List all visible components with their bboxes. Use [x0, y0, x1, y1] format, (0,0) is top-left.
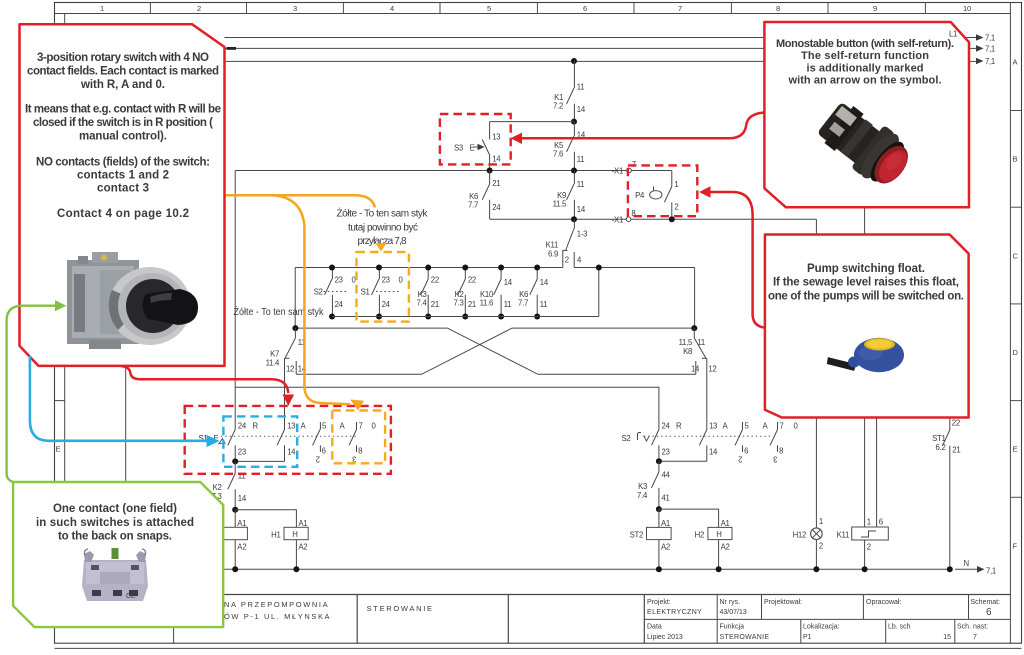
svg-text:1: 1 [674, 180, 678, 189]
junction P4/rail2 [669, 216, 675, 222]
svg-text:in such switches is attached: in such switches is attached [36, 517, 194, 529]
svg-text:14: 14 [238, 494, 247, 503]
svg-text:B: B [1013, 155, 1018, 164]
wire H12 feed from float area [815, 416, 817, 528]
wire bus L3 (y=61) with right arrow 7,1 [225, 57, 995, 66]
svg-text:14: 14 [540, 278, 549, 287]
svg-text:24: 24 [492, 203, 501, 212]
junction H12/rail [813, 566, 819, 572]
svg-text:Nr rys.: Nr rys. [720, 599, 741, 606]
svg-text:Lipiec 2013: Lipiec 2013 [647, 634, 683, 641]
annotation red leader from callout2 to S3 box [521, 113, 765, 139]
junction K10 bottom [498, 314, 504, 320]
svg-text:24: 24 [335, 300, 344, 309]
annotation red arrowhead at S3 box [511, 133, 523, 144]
svg-text:S2: S2 [622, 434, 631, 443]
svg-text:7.2: 7.2 [553, 102, 563, 111]
svg-text:2: 2 [674, 203, 678, 212]
switch S2 coupling dotted line [644, 435, 773, 437]
svg-text:A2: A2 [298, 543, 307, 552]
photo: contact block [82, 548, 148, 601]
svg-text:R: R [253, 421, 259, 430]
svg-text:contacts 1 and 2: contacts 1 and 2 [77, 170, 169, 182]
svg-text:One contact (one field): One contact (one field) [53, 503, 177, 515]
svg-text:6: 6 [322, 447, 326, 456]
svg-text:22: 22 [468, 276, 476, 285]
svg-text:S2: S2 [314, 288, 323, 297]
svg-text:K3: K3 [638, 482, 647, 491]
frame: left row tick and letter E [55, 400, 65, 402]
svg-text:2: 2 [867, 543, 871, 552]
svg-text:8: 8 [779, 447, 783, 456]
junction K9/rail2 [571, 216, 577, 222]
svg-text:E: E [1013, 445, 1018, 454]
svg-text:22: 22 [952, 419, 960, 428]
svg-text:ELEKTRYCZNY: ELEKTRYCZNY [647, 609, 702, 616]
svg-text:Pump switching float.: Pump switching float. [807, 263, 925, 275]
svg-text:one of the pumps will be switc: one of the pumps will be switched on. [768, 291, 964, 303]
svg-text:D: D [1013, 348, 1019, 357]
svg-text:3: 3 [293, 4, 297, 13]
switch S1 coupling dotted line [221, 435, 358, 437]
annotation yellow arrow into block box [375, 243, 386, 252]
wire long vertical x=235.2 down to S1 [234, 171, 236, 430]
svg-text:11.5: 11.5 [553, 200, 567, 209]
svg-text:6.2: 6.2 [936, 443, 946, 452]
contact S2 (block, pins 23/24, position 0) [314, 268, 357, 317]
annotation blue dashed box around S1 fields 1-2 [223, 416, 297, 466]
annotation yellow dashed box around S1 block contact [357, 252, 409, 322]
svg-text:24: 24 [662, 421, 671, 430]
svg-text:14: 14 [287, 448, 296, 457]
svg-text:S1: S1 [361, 288, 370, 297]
annotation yellow arrowhead at S1 field 4 [350, 400, 364, 411]
svg-text:R: R [676, 421, 682, 430]
svg-text:23: 23 [335, 276, 343, 285]
svg-text:23: 23 [238, 448, 246, 457]
svg-text:NA PRZEPOMPOWNIA: NA PRZEPOMPOWNIA [224, 600, 329, 609]
annotation red dashed box around S3 [440, 114, 511, 164]
junction K3 / H2 branch [656, 506, 662, 512]
svg-text:A: A [1013, 58, 1018, 67]
svg-text:Żółte - To ten sam styk: Żółte - To ten sam styk [337, 207, 429, 220]
contact K8 11.5 (changeover, pins 11/14,12) [679, 328, 717, 429]
annotation yellow leader to S1 field 4 box [273, 195, 350, 404]
switch S2 row label with spring-return symbol [622, 433, 650, 444]
junction K2 bottom [462, 314, 468, 320]
title block [211, 595, 1010, 644]
svg-text:ST2: ST2 [630, 531, 643, 540]
svg-text:A: A [301, 421, 307, 430]
svg-text:1: 1 [100, 4, 104, 13]
annotation red dashed box around P4 [628, 165, 697, 216]
junction S1 top [376, 265, 382, 271]
svg-text:41: 41 [662, 494, 670, 503]
wire bus L1 (y=37.5) with right arrow 7,1 [225, 34, 995, 43]
junction K6 bottom [534, 314, 540, 320]
terminal -X1:8 on rail2 [612, 209, 636, 224]
svg-text:1: 1 [867, 518, 871, 527]
junction H2/rail [716, 566, 722, 572]
svg-text:-X1: -X1 [612, 215, 623, 224]
svg-text:7.6: 7.6 [553, 150, 563, 159]
contact S2 field 4 (pins 7/8, A 0) [763, 421, 799, 463]
svg-text:Opracował:: Opracował: [866, 599, 901, 606]
callout 4: contact block note (green) [13, 482, 223, 627]
svg-text:7: 7 [359, 421, 363, 430]
junction K3 bottom [425, 314, 431, 320]
junction K2 / H1 branch [232, 507, 238, 513]
svg-text:L1: L1 [949, 30, 957, 39]
svg-text:43/07/13: 43/07/13 [720, 609, 747, 616]
svg-text:14: 14 [577, 105, 586, 114]
svg-text:A2: A2 [721, 542, 730, 551]
svg-text:11: 11 [697, 338, 705, 347]
svg-text:4: 4 [390, 4, 394, 13]
svg-text:14: 14 [492, 155, 501, 164]
svg-text:11: 11 [540, 300, 548, 309]
callout 3: float note (red) [765, 235, 969, 418]
junction long rail right [691, 325, 697, 331]
annotation red dashed box around S1 row [185, 406, 391, 474]
svg-text:The self-return function: The self-return function [801, 50, 929, 62]
svg-text:11,5: 11,5 [679, 338, 693, 347]
wire top rail of contact block y=267.5 (right segment) [574, 267, 694, 269]
frame: top column ruler ticks [150, 3, 925, 14]
svg-text:14: 14 [691, 365, 700, 374]
junction K11/rail [862, 566, 868, 572]
svg-text:0: 0 [372, 421, 377, 430]
svg-text:2: 2 [565, 256, 569, 265]
lamp H12 (pins 1/2) [793, 517, 823, 569]
svg-text:6: 6 [986, 607, 992, 618]
junction S2 bottom [656, 458, 662, 464]
wire S1 fields 1-2 bottom link [235, 460, 284, 462]
svg-text:contact fields. Each contact i: contact fields. Each contact is marked [27, 66, 219, 78]
annotation red leader from callout3 to P4 box [710, 192, 765, 328]
svg-text:7: 7 [678, 4, 682, 13]
junction ST1/rail [947, 566, 953, 572]
svg-text:Monostable button (with self-r: Monostable button (with self-return). [776, 38, 954, 50]
svg-text:21: 21 [468, 300, 476, 309]
svg-text:14: 14 [504, 278, 513, 287]
svg-text:13: 13 [287, 421, 295, 430]
svg-text:10: 10 [963, 4, 971, 13]
label N with arrow 7,1 [955, 559, 996, 575]
svg-text:1: 1 [819, 517, 823, 526]
svg-text:2: 2 [738, 455, 742, 464]
junction S3/rail [487, 168, 493, 174]
svg-text:E: E [470, 144, 475, 153]
contact K2 7.3 (block, pins 22/21) [454, 268, 476, 317]
svg-text:Projekt:: Projekt: [647, 599, 671, 606]
svg-text:K7: K7 [270, 350, 279, 359]
svg-text:A2: A2 [661, 542, 670, 551]
junction K2 top [462, 265, 468, 271]
wire crossover path A (left top to K8 pin14) [295, 328, 695, 374]
svg-text:15: 15 [943, 634, 951, 641]
junction K1/K5/S3 branch [571, 119, 577, 125]
annotation yellow note text (3 lines) [337, 207, 429, 248]
svg-text:It means that e.g. contact wit: It means that e.g. contact with R will b… [25, 104, 221, 116]
svg-text:24: 24 [238, 421, 247, 430]
svg-text:S3: S3 [454, 144, 463, 153]
relay K11 (timer coil, pins 1,6/2) [837, 518, 889, 570]
junction riser/top rail [596, 265, 602, 271]
wire left vertical to long rail [294, 268, 296, 329]
svg-text:Lokalizacja:: Lokalizacja: [803, 624, 840, 631]
contact S2 field 2 (pins 13/14, A) [699, 421, 728, 461]
svg-text:H: H [716, 530, 721, 539]
svg-text:Contact 4 on page 10.2: Contact 4 on page 10.2 [57, 208, 189, 220]
callout 1: rotary switch note (red) [20, 24, 225, 366]
annotation green leader to rotary switch photo [7, 300, 67, 482]
wire rail y=170.5 from x=235 to P4 [235, 170, 672, 172]
svg-text:6: 6 [879, 518, 883, 527]
svg-text:6.9: 6.9 [548, 250, 558, 259]
svg-text:6: 6 [583, 4, 587, 13]
svg-text:manual control).: manual control). [79, 131, 167, 143]
contact K3 7.4 (lower, pins 44/41) [637, 461, 670, 509]
svg-text:ÓW P-1 UL. MŁYNSKA: ÓW P-1 UL. MŁYNSKA [224, 612, 331, 621]
svg-text:K8: K8 [683, 347, 692, 356]
wire bus L2 (y=48.4) with thick tap dash and right arrow 7,1 [225, 44, 995, 53]
wire S2 fields 1-2 bottom link [659, 460, 707, 462]
svg-text:1-3: 1-3 [577, 230, 587, 239]
svg-text:21: 21 [492, 179, 500, 188]
junction ST2/rail [656, 566, 662, 572]
svg-text:5: 5 [745, 421, 750, 430]
svg-text:7: 7 [780, 421, 784, 430]
svg-text:A2: A2 [237, 543, 246, 552]
svg-text:23: 23 [382, 276, 390, 285]
svg-text:E: E [56, 445, 61, 454]
contact S1 field 1 (pins 24/23, R) [228, 421, 259, 461]
svg-text:Data: Data [647, 624, 662, 631]
svg-text:21: 21 [431, 300, 439, 309]
junction S1 bottom [376, 314, 382, 320]
svg-text:with an arrow on the symbol.: with an arrow on the symbol. [788, 75, 942, 87]
junction coil A1/rail [232, 566, 238, 572]
wire K11 coil pin6 feed [876, 416, 878, 527]
svg-text:12: 12 [286, 365, 294, 374]
wire branch to H2 [659, 509, 719, 527]
annotation yellow leader to note [225, 195, 375, 207]
wire top rail of contact block y=267.5 (left segment) [295, 267, 563, 269]
svg-text:8: 8 [776, 4, 780, 13]
svg-text:STEROWANIE: STEROWANIE [367, 604, 434, 613]
svg-text:24: 24 [382, 300, 391, 309]
svg-text:4: 4 [577, 256, 582, 265]
svg-text:STEROWANIE: STEROWANIE [720, 634, 770, 641]
junction K6 top [534, 265, 540, 271]
svg-text:11.4: 11.4 [266, 359, 280, 368]
svg-text:K2: K2 [213, 483, 222, 492]
contact K11 6.9 (changeover, pins 1-3 / 2,4) [546, 219, 588, 267]
svg-text:14: 14 [577, 205, 586, 214]
svg-text:11: 11 [577, 83, 585, 92]
svg-text:H: H [292, 530, 297, 539]
svg-text:H1: H1 [271, 531, 280, 540]
svg-text:CE: CE [126, 593, 136, 600]
wire right vertical to long rail [694, 268, 696, 329]
svg-text:2: 2 [197, 4, 201, 13]
svg-text:23: 23 [662, 448, 670, 457]
svg-text:7.7: 7.7 [468, 201, 478, 210]
photo: red pushbutton [813, 95, 918, 194]
contact S1 field 3 (pins 5/6) [313, 421, 327, 463]
wire K11 coil pin1 feed [864, 207, 866, 234]
svg-text:6: 6 [744, 447, 748, 456]
svg-text:11: 11 [504, 300, 512, 309]
svg-text:A: A [340, 421, 346, 430]
title block texts [224, 599, 1000, 641]
junction S2 bottom [329, 314, 335, 320]
contact K3 7.4 (block, pins 22/21) [417, 268, 439, 317]
svg-text:ST1: ST1 [932, 434, 945, 443]
wire branch to H1 [235, 510, 296, 528]
svg-text:7.4: 7.4 [637, 491, 648, 500]
wire S1-S2 link rail y=387.3 [235, 387, 659, 429]
frame: right row-letter ticks [1010, 111, 1022, 498]
photo: float switch [826, 338, 904, 372]
wire mid rail y=316.5 and riser to top rail [332, 268, 599, 317]
wire bottom rail N y=569.3 [211, 568, 950, 570]
wire rail y=219.2 K6 to x=816 corner [490, 219, 817, 236]
svg-text:Schemat:: Schemat: [971, 599, 1001, 606]
svg-text:14: 14 [709, 448, 718, 457]
contact P4 float switch (pins 1/2) [635, 171, 678, 220]
photo: rotary switch [67, 252, 198, 349]
junction long rail left [292, 325, 298, 331]
contact S1 field 2 (pins 13/14, A) [277, 421, 306, 461]
svg-text:7.3: 7.3 [454, 299, 464, 308]
svg-text:5: 5 [487, 4, 491, 13]
switch S1 row label [199, 434, 226, 444]
svg-text:K11: K11 [546, 241, 558, 250]
svg-text:2: 2 [316, 455, 320, 464]
annotation red arrowhead at S1 box [283, 395, 295, 407]
svg-text:5: 5 [322, 421, 327, 430]
svg-text:Żółte - To ten sam styk: Żółte - To ten sam styk [234, 305, 325, 318]
frame: column numbers 1-10 [100, 4, 971, 13]
svg-text:A: A [723, 421, 729, 430]
contact S1 (block, pins 23/24, position 0) [361, 268, 404, 317]
svg-text:A1: A1 [298, 519, 307, 528]
contact K5 7.6 (NO, pins 14/11) [553, 122, 586, 171]
svg-text:3: 3 [773, 455, 777, 464]
contact K6 7.7 (block, pins 14/11) [518, 268, 549, 317]
annotation red leader from callout1 to S1 box [121, 366, 288, 393]
coil ST2 (pins A1/A2) [630, 509, 672, 569]
svg-text:11: 11 [577, 155, 585, 164]
svg-text:contact 3: contact 3 [97, 183, 149, 195]
svg-text:-X1: -X1 [612, 167, 623, 176]
junction S2 top [329, 265, 335, 271]
svg-text:3-position rotary switch with: 3-position rotary switch with 4 NO [37, 52, 209, 64]
contact S2 field 1 (pins 24/23, R) [652, 421, 683, 461]
wire crossover path B (right top to K7 pin14) [296, 328, 694, 374]
junction K3 top [425, 265, 431, 271]
svg-text:NO contacts (fields) of the sw: NO contacts (fields) of the switch: [36, 157, 210, 169]
svg-text:Funkcja: Funkcja [720, 624, 745, 631]
svg-text:Lb. sch: Lb. sch [888, 624, 911, 631]
svg-text:7,1: 7,1 [985, 44, 995, 53]
wire branch to S3 [490, 121, 574, 123]
svg-text:F: F [1013, 541, 1018, 550]
svg-text:P1: P1 [803, 634, 812, 641]
svg-text:0: 0 [794, 421, 799, 430]
svg-text:N: N [964, 559, 969, 568]
contact K10 11.6 (block, pins 14/11) [480, 268, 513, 317]
contact S2 field 3 (pins 5/6) [735, 421, 749, 463]
contact K7 11.4 (changeover, pins 11/12,14) [266, 328, 307, 429]
contact K6 7.7 (pins 21/24) [468, 171, 501, 220]
lamp H2 (pins A1/A2) [695, 519, 732, 569]
svg-text:7: 7 [973, 634, 977, 641]
junction K5/rail [571, 168, 577, 174]
svg-text:K11: K11 [837, 531, 849, 540]
annotation blue leader to S1 blue box [30, 356, 220, 447]
svg-text:A1: A1 [721, 519, 730, 528]
svg-text:H2: H2 [695, 531, 704, 540]
svg-text:is additionally marked: is additionally marked [807, 63, 924, 75]
svg-text:Projektował:: Projektował: [764, 599, 802, 606]
svg-text:Sch. nast:: Sch. nast: [957, 624, 988, 631]
contact S3 E (pushbutton, pins 13/14) [454, 122, 501, 171]
svg-text:A: A [763, 421, 769, 430]
contact K9 11.5 (pins 11/14) [553, 171, 586, 220]
svg-text:9: 9 [873, 4, 877, 13]
svg-text:11.6: 11.6 [480, 299, 493, 308]
svg-text:21: 21 [952, 446, 960, 455]
svg-text:11: 11 [577, 180, 585, 189]
annotation yellow dashed box around S1 field 4 [332, 411, 385, 464]
coil A1 (contactor coil, pins A1/A2) [223, 510, 247, 570]
annotation red arrowhead at P4 box [699, 186, 711, 197]
svg-text:A1: A1 [661, 519, 670, 528]
junction K10 top [498, 265, 504, 271]
svg-text:7,1: 7,1 [986, 566, 996, 575]
svg-text:13: 13 [709, 421, 717, 430]
contact ST1 6.2 (pins 22/21) [932, 414, 960, 569]
svg-text:P4: P4 [635, 191, 645, 200]
svg-text:13: 13 [492, 133, 500, 142]
svg-text:If the sewage level raises thi: If the sewage level raises this float, [773, 277, 959, 289]
svg-text:12: 12 [708, 365, 716, 374]
contact K1 7.2 (NO, pins 11/14) [553, 61, 586, 122]
svg-text:tutaj powinno być: tutaj powinno być [348, 223, 418, 234]
contact K2 7.3 (lower, pins 11/14) [212, 461, 247, 509]
svg-text:7.4: 7.4 [417, 299, 428, 308]
callout 2: monostable button note (red) [764, 22, 969, 207]
terminal -X1:7 on rail [612, 160, 636, 176]
junction H1/rail [293, 566, 299, 572]
svg-text:7,1: 7,1 [985, 57, 995, 66]
svg-text:8: 8 [358, 447, 362, 456]
svg-text:C: C [1013, 251, 1019, 260]
contact S1 field 4 (pins 7/8, A 0) [340, 421, 377, 463]
svg-text:with R, A and 0.: with R, A and 0. [80, 79, 165, 91]
lamp H1 (pins A1/A2) [271, 519, 308, 569]
svg-text:H12: H12 [793, 531, 806, 540]
svg-text:closed if the switch is in R p: closed if the switch is in R position ( [33, 117, 213, 129]
svg-text:to the back on snaps.: to the back on snaps. [58, 531, 172, 543]
svg-text:2: 2 [819, 542, 823, 551]
svg-text:0: 0 [399, 276, 404, 285]
svg-text:44: 44 [662, 471, 671, 480]
wire hidden branch x=125.7 [125, 366, 127, 482]
